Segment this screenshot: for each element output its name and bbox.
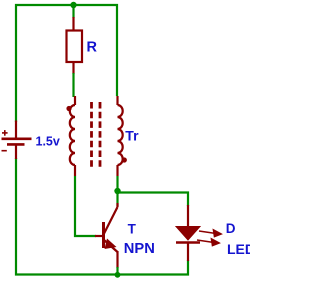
LED D: cathode pin [187,243,189,261]
transformer Tr: core (two dashed lines) [92,102,101,168]
transformer Tr: right winding bottom pin [116,165,118,176]
wire: right winding bottom down to collector junction [116,176,118,206]
transistor T: emitter line [104,240,118,252]
wire: top horizontal from junction to top-right corner and down to transformer secondary [73,5,117,96]
wire: bottom rail from battery - to LED bottom corner [16,158,188,275]
transformer Tr: right winding top pin [116,96,118,105]
transistor T: base pin [95,235,103,237]
resistor R: top pin [72,17,74,31]
transformer Tr: left winding (5 humps bulging left) [70,105,75,165]
LED D: anode pin [187,205,189,228]
LED D: triangle (anode, pointing down) [176,227,200,241]
svg-text:NPN: NPN [124,241,155,257]
battery B: minus sign [2,150,7,152]
resistor R: body [67,31,83,63]
battery B: long plate (+) [2,138,32,141]
transformer Tr: left winding phase dot (top-left) [66,106,71,111]
svg-text:1.5v: 1.5v [36,135,60,149]
LED D: light arrow upper [199,230,221,237]
battery B: short plate (-) [7,143,25,146]
transistor T: collector line [104,207,118,234]
wire: junction down to resistor R top pin [72,5,74,18]
resistor R: bottom pin [72,62,74,74]
node: collector junction dot [114,188,120,194]
battery B: plus sign [2,130,8,136]
svg-text:T: T [128,222,137,237]
transistor T: emitter arrowhead [105,239,117,250]
svg-text:Tr: Tr [125,127,139,143]
transistor T: emitter pin [116,251,118,268]
wire: emitter down to bottom rail [116,267,118,275]
svg-text:LED: LED [227,241,250,257]
transformer Tr: right winding phase dot (bottom-right) [122,157,127,162]
node: emitter junction dot on bottom rail [115,272,121,278]
node: top junction dot [70,2,76,8]
transformer Tr: right winding (5 humps bulging right) [118,105,123,165]
battery B: top pin from + [15,121,17,139]
wire: left vertical from battery + up to top-left corner [16,5,73,122]
transistor T: base bar [102,222,105,248]
wire: collector junction right to LED branch top corner [118,193,189,207]
LED D: cathode bar [176,241,200,244]
svg-text:D: D [226,221,236,236]
transistor T: collector pin stub [116,203,118,207]
wire: left winding bottom down and right to transistor base [75,176,96,236]
wire: resistor bottom to transformer primary top pin [72,73,74,97]
battery B: bottom pin [15,145,17,159]
transformer Tr: left winding bottom pin [74,165,76,176]
transformer Tr: left winding top pin [74,96,76,105]
svg-text:R: R [87,40,98,56]
LED D: light arrow lower [197,239,219,246]
